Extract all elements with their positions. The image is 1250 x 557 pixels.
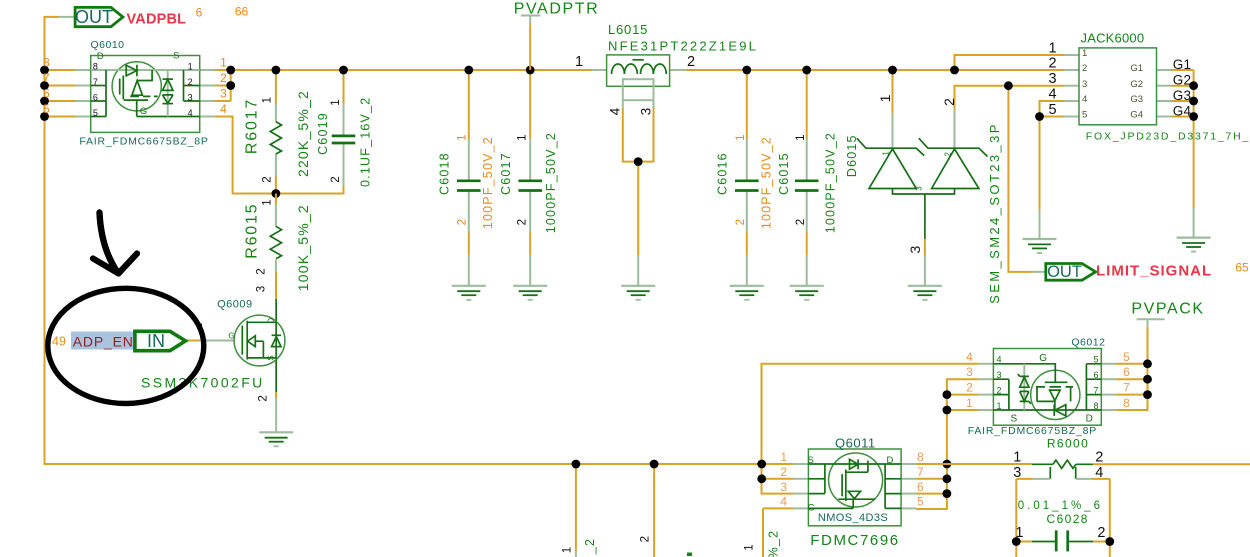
svg-text:4: 4: [1082, 94, 1087, 105]
svg-text:49: 49: [52, 335, 66, 349]
svg-text:2: 2: [258, 395, 270, 401]
wire C6019 leads: [343, 70, 345, 104]
svg-text:C6016: C6016: [716, 152, 730, 195]
wire jack pin5 and ground drop: [1040, 116, 1065, 118]
transistor Q6009 body: [234, 315, 285, 366]
svg-text:G4: G4: [1130, 110, 1143, 121]
wire jack pin4 to pin5: [1040, 101, 1065, 117]
svg-text:S: S: [173, 51, 179, 62]
transistor Q6012 D bracket: [1085, 364, 1087, 410]
node bottom stub1 on VADPBL rail: [572, 460, 581, 469]
node Q6012 pin2 junction: [943, 390, 952, 399]
wire C6015 leads: [806, 70, 808, 139]
svg-text:S: S: [266, 355, 275, 360]
svg-text:VADPBL: VADPBL: [127, 12, 187, 28]
svg-text:G: G: [1039, 353, 1047, 364]
node C6019 top on bus: [339, 66, 348, 75]
transistor Q6010 gate bars: [119, 79, 121, 95]
node Q6011 pin7 junction: [943, 474, 952, 483]
node D6015 pin1 on bus: [888, 66, 897, 75]
svg-text:3: 3: [1013, 465, 1021, 481]
svg-text:2: 2: [735, 219, 747, 225]
svg-text:3: 3: [1082, 79, 1087, 90]
wire IN flag to Q6009 gate: [186, 340, 200, 342]
transistor Q6009 drain/source links: [247, 322, 276, 358]
svg-text:1: 1: [457, 134, 469, 140]
svg-text:JACK6000: JACK6000: [1081, 31, 1145, 46]
svg-text:3: 3: [255, 286, 267, 292]
wire D6015 pin2 to jack pin3 LIMIT net: [954, 110, 956, 149]
ground C6015: [790, 286, 824, 300]
node G3 junction: [1189, 97, 1198, 106]
svg-text:D6015: D6015: [845, 134, 859, 177]
svg-text:7: 7: [1123, 381, 1130, 395]
capacitor C6015: [795, 179, 819, 182]
svg-text:1: 1: [562, 547, 574, 553]
svg-text:R6015: R6015: [243, 203, 260, 259]
wire C6017 leads: [529, 70, 531, 139]
transistor Q6011 gate stem and line: [852, 499, 854, 508]
wire jack G1-G4 tie to ground: [1157, 69, 1172, 71]
capacitor C6018: [457, 179, 481, 182]
svg-text:6: 6: [43, 87, 50, 101]
transistor Q6010 S bracket: [183, 70, 185, 101]
capacitor C6019: [332, 135, 356, 138]
svg-text:R6000: R6000: [1047, 436, 1089, 450]
wire R6017 leads: [275, 70, 277, 104]
transistor Q6011 top diode: [850, 459, 859, 469]
transistor Q6012 body triangle: [1050, 390, 1061, 401]
svg-text:2: 2: [639, 536, 651, 542]
svg-text:1: 1: [188, 61, 193, 71]
transistor Q6011 body: [808, 449, 901, 526]
ground L6015: [621, 286, 655, 300]
svg-text:3: 3: [220, 87, 227, 101]
svg-text:G: G: [808, 503, 815, 514]
svg-text:2: 2: [1095, 450, 1103, 466]
svg-text:D: D: [266, 318, 275, 324]
svg-text:S: S: [808, 455, 814, 466]
svg-text:5: 5: [917, 495, 924, 509]
wire Q6009 drain lead: [275, 299, 277, 398]
svg-text:G2: G2: [1173, 73, 1192, 88]
svg-text:8: 8: [1123, 396, 1130, 410]
wire Q6010 left pin stubs: [45, 69, 76, 71]
svg-text:OUT: OUT: [75, 7, 113, 27]
svg-text:1: 1: [744, 544, 756, 550]
wire PVPACK to Q6012 D pins: [1147, 319, 1149, 327]
svg-text:1: 1: [1082, 48, 1087, 59]
node G4 junction: [1189, 112, 1198, 121]
wire top bus PVADPTR y=70: [215, 69, 592, 71]
node C6017/PVADPTR on bus: [526, 66, 535, 75]
svg-text:3: 3: [188, 92, 193, 102]
svg-text:NMOS_4D3S: NMOS_4D3S: [818, 512, 888, 524]
diode D6015 cathode 1 bar: [857, 138, 924, 155]
svg-text:IN: IN: [147, 331, 165, 351]
wire Q6012 S pins to Q6011 D pins: [916, 379, 978, 509]
transistor Q6010 internal rail: [91, 69, 200, 71]
svg-text:8: 8: [917, 450, 924, 464]
svg-text:3: 3: [915, 186, 924, 191]
transistor Q6011 D bracket: [884, 464, 886, 508]
node Q6011 pin6 junction: [943, 489, 952, 498]
svg-text:100K_5%_2: 100K_5%_2: [295, 204, 311, 291]
svg-text:1: 1: [575, 54, 583, 70]
node Q6012 pin5 junction: [1143, 359, 1152, 368]
wire Q6010 S pins tie vertical: [230, 70, 232, 101]
node C6028 pin2 junction: [1105, 537, 1114, 546]
svg-text:LIMIT_SIGNAL: LIMIT_SIGNAL: [1096, 262, 1212, 279]
svg-text:3: 3: [907, 245, 923, 253]
transistor Q6012 gate bar: [1045, 381, 1068, 383]
svg-text:4: 4: [966, 350, 973, 364]
wire C6028 leads: [1016, 541, 1032, 543]
svg-text:2: 2: [188, 77, 193, 87]
capacitor C6028: [1055, 530, 1058, 551]
svg-text:0.01_1%_6: 0.01_1%_6: [1018, 500, 1103, 512]
node C6018 on bus: [464, 66, 473, 75]
svg-text:3: 3: [780, 480, 787, 494]
wire Q6011 gate down: [793, 507, 808, 509]
wire R6000 pin2 to right edge: [1093, 463, 1250, 465]
wire L6015 pins 4,3 to ground: [622, 100, 624, 108]
node jack pin4/5 join: [1035, 112, 1044, 121]
svg-text:5: 5: [1123, 350, 1130, 364]
svg-text:2: 2: [997, 385, 1002, 395]
node Q6012-S on sense bus: [943, 460, 952, 469]
svg-text:6: 6: [93, 92, 98, 102]
svg-text:Q6011: Q6011: [835, 436, 876, 451]
diode D6015 cathode 2 bar: [919, 138, 988, 156]
svg-text:6: 6: [1094, 370, 1099, 380]
svg-text:1: 1: [877, 94, 893, 102]
wire bottom stub component 1: [575, 464, 577, 551]
diode D6015 common base: [893, 189, 955, 195]
svg-text:L6015: L6015: [608, 22, 648, 37]
svg-text:5: 5: [1082, 110, 1087, 121]
svg-text:2: 2: [1082, 63, 1087, 74]
flag IN ADP_EN: [71, 332, 135, 350]
svg-text:2: 2: [255, 268, 267, 274]
wire LIMIT_SIGNAL drop to OUT flag: [1008, 86, 1033, 272]
transistor Q6010 gate line: [137, 116, 200, 118]
transistor Q6009 gate bars: [241, 326, 243, 355]
transistor Q6010 D bracket: [105, 70, 107, 117]
svg-text:8: 8: [93, 61, 98, 71]
svg-text:5: 5: [43, 102, 50, 116]
node LIMIT tap on jack pin3 wire: [1004, 81, 1013, 90]
svg-text:G2: G2: [1130, 79, 1143, 90]
svg-text:1000PF_50V_2: 1000PF_50V_2: [824, 132, 838, 233]
ground Q6009: [259, 432, 293, 446]
transistor Q6012 channel dashes: [1036, 386, 1073, 388]
svg-text:S: S: [1010, 414, 1017, 425]
svg-text:1: 1: [220, 56, 227, 70]
flag OUT LIMIT_SIGNAL: [1046, 264, 1096, 281]
svg-text:7: 7: [93, 77, 98, 87]
wire L6015 pin1 stub: [592, 69, 607, 71]
transistor Q6012 bottom rail: [993, 409, 1101, 411]
transistor Q6012 S bracket: [1008, 379, 1010, 410]
svg-text:2: 2: [941, 98, 957, 106]
svg-text:2: 2: [262, 176, 274, 182]
node Q6011 pin2 junction: [757, 474, 766, 483]
svg-text:C6017: C6017: [499, 152, 513, 195]
transistor Q6011 gate bars: [841, 474, 843, 496]
svg-text:5: 5: [93, 108, 98, 118]
svg-text:1: 1: [795, 134, 807, 140]
svg-text:1: 1: [735, 134, 747, 140]
net PVADPTR tick: [521, 15, 540, 17]
svg-text:C6018: C6018: [438, 152, 452, 195]
svg-text:3: 3: [638, 108, 653, 116]
svg-text:C6028: C6028: [1047, 512, 1089, 526]
transistor Q6012 body: [993, 349, 1101, 426]
transistor Q6010 top diode: [126, 65, 137, 76]
svg-text:7: 7: [43, 71, 50, 85]
svg-text:OUT: OUT: [1047, 263, 1082, 281]
capacitor C6017: [518, 179, 542, 182]
wire sense bus Q6011 D to R6000: [901, 463, 916, 465]
svg-text:4: 4: [188, 108, 193, 118]
flag OUT VADPBL: [75, 7, 123, 26]
svg-text:R6017: R6017: [243, 98, 260, 154]
svg-text:4: 4: [1095, 465, 1103, 481]
svg-text:4: 4: [220, 102, 227, 116]
annotation ellipse: [48, 288, 204, 403]
transistor Q6012 gate wire: [993, 364, 1055, 383]
inductor L6015 coils: [612, 64, 638, 74]
svg-text:65: 65: [1235, 261, 1249, 275]
ground C6017: [513, 286, 547, 300]
node R6017/R6015/gate junction: [272, 189, 281, 198]
wire D6015 pin3 to ground: [924, 194, 926, 239]
svg-text:1: 1: [1013, 450, 1021, 466]
resistor R6017: [270, 122, 281, 154]
svg-text:2: 2: [457, 219, 469, 225]
svg-text:1: 1: [966, 396, 973, 410]
svg-text:C6019: C6019: [316, 112, 330, 155]
svg-text:8: 8: [43, 56, 50, 70]
ground C6018: [452, 286, 486, 300]
wire R6015 leads: [275, 194, 277, 205]
svg-text:5: 5: [1094, 355, 1099, 365]
svg-text:D: D: [97, 51, 104, 62]
connector JACK6000 body: [1079, 48, 1157, 125]
wire VADPBL flag to left rail: [45, 17, 794, 464]
transistor Q6010 body triangle: [132, 81, 143, 96]
transistor Q6012 zener pair: [1023, 364, 1025, 410]
transistor Q6010 source bar and stem: [124, 99, 148, 101]
wire jack pin1 riser: [955, 55, 1065, 70]
wire L6015 pin2 to jack pin2: [670, 69, 686, 71]
svg-text:4: 4: [608, 107, 623, 115]
node bottom stub2 on VADPBL rail: [650, 460, 659, 469]
wire R6000 kelvin pin4: [1075, 467, 1077, 479]
sense resistor R6000: [1032, 463, 1053, 465]
node Q6010 pin1/pin2 junctions: [226, 66, 235, 75]
svg-text:3: 3: [1048, 71, 1056, 87]
svg-text:C6015: C6015: [777, 152, 791, 195]
ground D6015: [908, 286, 942, 300]
svg-text:D: D: [1086, 414, 1093, 425]
svg-text:1: 1: [1048, 40, 1056, 56]
svg-text:FOX_JPD23D_D3371_7H_: FOX_JPD23D_D3371_7H_: [1086, 131, 1250, 143]
node G2 junction: [1189, 81, 1198, 90]
svg-text:G: G: [140, 106, 147, 117]
svg-text:100PF_50V_2: 100PF_50V_2: [481, 136, 495, 229]
node R6017 top on bus: [272, 66, 281, 75]
ground C6016: [730, 286, 764, 300]
transistor Q6011 source bar: [838, 498, 875, 500]
svg-text:NFE31PT222Z1E9L: NFE31PT222Z1E9L: [608, 39, 758, 54]
transistor Q6011 top rail: [808, 463, 901, 465]
svg-text:G3: G3: [1130, 94, 1143, 105]
svg-text:PVADPTR: PVADPTR: [514, 0, 600, 17]
transistor Q6010 zener pair: [167, 70, 169, 117]
svg-text:SEM_SM24_SOT23_3P: SEM_SM24_SOT23_3P: [987, 122, 1002, 304]
resistor R6015: [270, 226, 281, 258]
svg-text:G3: G3: [1173, 88, 1192, 103]
svg-text:7: 7: [917, 465, 924, 479]
net PVPACK tick: [1137, 318, 1165, 320]
svg-text:2: 2: [943, 152, 952, 157]
wire bottom stub component 2: [653, 464, 655, 557]
svg-text:0.1UF_16V_2: 0.1UF_16V_2: [358, 97, 372, 187]
ground jack pins4-5: [1023, 239, 1057, 253]
capacitor C6016: [735, 179, 759, 182]
svg-text:2: 2: [517, 219, 529, 225]
node jack pin1 riser on bus: [950, 66, 959, 75]
svg-text:4: 4: [997, 355, 1002, 365]
svg-text:8: 8: [1094, 401, 1099, 411]
svg-text:FAIR_FDMC6675BZ_8P: FAIR_FDMC6675BZ_8P: [79, 136, 208, 148]
svg-text:2: 2: [330, 176, 342, 182]
wire C6016 leads: [746, 70, 748, 139]
svg-text:2: 2: [687, 54, 695, 70]
svg-text:D: D: [887, 455, 894, 466]
wire R6000 kelvin pin3: [1049, 467, 1051, 479]
svg-text:SSM3K7002FU: SSM3K7002FU: [141, 375, 265, 391]
svg-text:1: 1: [330, 99, 342, 105]
node C6016 on bus: [742, 66, 751, 75]
svg-text:4: 4: [1048, 86, 1056, 102]
svg-text:G: G: [228, 332, 234, 341]
transistor Q6011 drain link: [846, 461, 868, 473]
diode D6015 anode 2 triangle: [932, 149, 979, 189]
transistor Q6011 body triangle: [848, 491, 860, 498]
svg-text:1: 1: [262, 199, 274, 205]
wire D6015 pin1 lead: [892, 70, 894, 114]
svg-text:6: 6: [196, 5, 203, 19]
transistor Q6011 S bracket: [824, 464, 826, 494]
svg-text:Q6012: Q6012: [1071, 337, 1105, 349]
node Q6012 pin6 junction: [1143, 375, 1152, 384]
transistor Q6009 body arrow: [248, 336, 256, 347]
node L6015 pins 3/4 join: [634, 157, 643, 166]
node C6015 on bus: [802, 66, 811, 75]
svg-text:G1: G1: [1173, 57, 1192, 72]
svg-text:2: 2: [966, 381, 973, 395]
svg-text:Q6010: Q6010: [91, 39, 125, 51]
svg-text:4: 4: [780, 495, 787, 509]
svg-text:66: 66: [235, 4, 249, 18]
inductor filter L6015 body: [607, 55, 670, 86]
svg-text:ADP_EN: ADP_EN: [73, 333, 134, 349]
svg-text:1: 1: [882, 151, 891, 156]
svg-text:100PF_50V_2: 100PF_50V_2: [760, 136, 774, 229]
node Q6012 pin1 junction: [943, 406, 952, 415]
svg-text:2: 2: [780, 465, 787, 479]
transistor Q6012 body diode: [1053, 405, 1055, 416]
svg-text:2: 2: [1048, 55, 1056, 71]
svg-text:1: 1: [517, 134, 529, 140]
svg-text:2: 2: [1097, 525, 1105, 541]
transistor Q6010 channel dashes: [130, 95, 158, 97]
node Q6012 gate wire on rail: [757, 460, 766, 469]
svg-text:PVPACK: PVPACK: [1131, 301, 1204, 318]
svg-text:1: 1: [1015, 525, 1023, 541]
svg-text:6: 6: [917, 480, 924, 494]
diode D6015 anode 1 triangle: [869, 149, 916, 189]
svg-text:3: 3: [966, 365, 973, 379]
svg-text:7: 7: [1094, 385, 1099, 395]
node C6028 pin1 junction: [1012, 537, 1021, 546]
node Q6010 pins 8-5 junctions on VADPBL rail: [40, 66, 49, 75]
svg-text:1000PF_50V_2: 1000PF_50V_2: [544, 132, 558, 233]
transistor Q6010 body: [91, 56, 200, 133]
svg-text:_2: _2: [583, 538, 597, 555]
wire Q6010 gate to divider node: [200, 116, 215, 118]
wire C6018 leads: [468, 70, 470, 139]
svg-text:FDMC7696: FDMC7696: [810, 532, 900, 549]
svg-text:FAIR_FDMC6675BZ_8P: FAIR_FDMC6675BZ_8P: [968, 425, 1097, 437]
svg-text:220K_5%_2: 220K_5%_2: [295, 90, 311, 177]
svg-text:1: 1: [262, 97, 274, 103]
svg-text:1: 1: [997, 401, 1002, 411]
wire Q6012 gate to VADPBL rail and Q6011 S pins: [762, 364, 979, 494]
transistor Q6012 contact bars: [1037, 388, 1071, 402]
ground jack G pins: [1177, 238, 1211, 252]
node Q6012 pin7 junction: [1143, 390, 1152, 399]
svg-text:G4: G4: [1173, 104, 1192, 119]
svg-text:3: 3: [997, 370, 1002, 380]
svg-text:G1: G1: [1130, 63, 1143, 74]
svg-text:%_2: %_2: [767, 530, 781, 557]
wire Q6009 source to ground: [275, 392, 277, 398]
annotation arrow: [100, 213, 118, 272]
svg-text:2: 2: [220, 71, 227, 85]
transistor Q6009 body diode: [272, 337, 281, 347]
svg-text:Q6009: Q6009: [217, 299, 253, 311]
svg-text:6: 6: [1123, 365, 1130, 379]
svg-text:5: 5: [1048, 102, 1056, 118]
svg-text:1: 1: [780, 450, 787, 464]
svg-text:2: 2: [795, 219, 807, 225]
wire PVADPTR net stub: [529, 16, 531, 25]
